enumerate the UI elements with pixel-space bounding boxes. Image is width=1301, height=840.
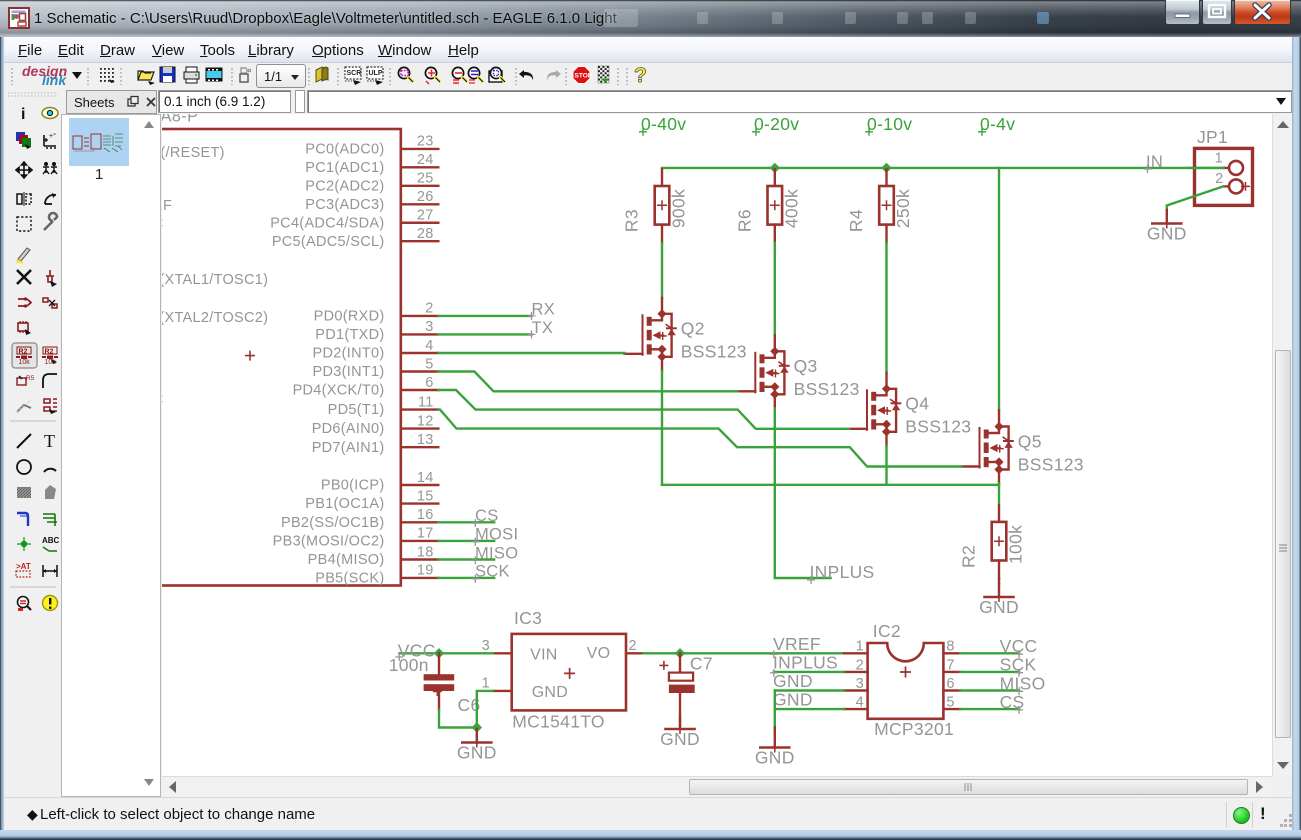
svg-text:19: 19 <box>417 563 434 579</box>
IC1 pin 27 PC4(ADC4/SDA) <box>270 208 438 232</box>
palette <box>4 90 61 797</box>
label CS <box>471 507 498 527</box>
svg-text:2: 2 <box>856 657 864 673</box>
svg-text:PD1(TXD): PD1(TXD) <box>315 327 384 343</box>
wire top bus IN <box>662 167 1224 169</box>
svg-text:12: 12 <box>417 413 434 429</box>
svg-text:Q3: Q3 <box>794 356 818 376</box>
junction at C7 <box>675 648 685 658</box>
JP1 name label <box>1197 127 1228 147</box>
svg-text:R6: R6 <box>734 209 754 232</box>
label IN <box>1144 153 1164 173</box>
IC1 left pin name fragment C2 <box>153 392 164 408</box>
wire source bus horizontal <box>662 484 999 486</box>
svg-text:PD5(T1): PD5(T1) <box>328 402 385 418</box>
svg-text:4: 4 <box>856 695 864 711</box>
svg-text:GND: GND <box>773 690 813 710</box>
wire net RX <box>438 315 531 317</box>
IC1 pin 2 PD0(RXD) <box>314 301 439 325</box>
wire VCC to IC3 VIN <box>399 652 493 654</box>
svg-text:PC4(ADC4/SDA): PC4(ADC4/SDA) <box>270 215 384 231</box>
scrollbars <box>1272 114 1292 776</box>
IC IC3 box <box>512 634 626 711</box>
ground at IC2 <box>755 734 795 768</box>
IC1 pin 19 PB5(SCK) <box>315 563 438 587</box>
ground at JP1 <box>1147 210 1187 244</box>
wire IC3 pin1 to GND corner <box>477 691 493 728</box>
svg-text:1: 1 <box>1215 151 1223 167</box>
svg-text:25: 25 <box>417 171 434 187</box>
label GND pin4 <box>773 690 813 710</box>
svg-text:PD4(XCK/T0): PD4(XCK/T0) <box>293 383 385 399</box>
wire JP1 pin2 to GND <box>1167 186 1224 211</box>
svg-text:SCR: SCR <box>347 70 362 77</box>
wire net CS <box>438 521 494 523</box>
wire pin6 to Q4 gate <box>438 390 849 429</box>
wire net MISO <box>438 558 494 560</box>
IC1 left pin name fragment D <box>151 180 162 196</box>
IC3 pin 1 GND <box>482 676 569 701</box>
IC IC1 ATMEGA8-P box <box>140 129 401 586</box>
IC1 left pin name XTAL2 <box>151 310 268 326</box>
IC2 pin 1 <box>844 639 868 655</box>
label 0-4v <box>978 114 1015 136</box>
transistor Q5 BSS123 <box>962 411 1084 484</box>
IC2 pin 7 <box>943 657 960 673</box>
label 0-20v <box>752 114 799 136</box>
wire net MISO at IC2 <box>960 689 1019 691</box>
IC3 origin cross <box>564 668 575 679</box>
svg-text:Q2: Q2 <box>681 319 705 339</box>
wire pin5 to Q3 gate <box>438 372 737 392</box>
label CS at IC2 <box>1000 692 1025 714</box>
IC1 pin 16 PB2(SS/OC1B) <box>281 507 438 531</box>
svg-text:1: 1 <box>482 676 490 692</box>
svg-text:900k: 900k <box>669 189 689 228</box>
svg-text:Q4: Q4 <box>905 394 929 414</box>
IC1 left pin name fragment (/RESET) <box>152 145 225 161</box>
svg-text:BSS123: BSS123 <box>681 342 747 362</box>
svg-text:3: 3 <box>425 319 433 335</box>
wire pin4 to Q2 gate <box>438 352 624 354</box>
svg-text:MISO: MISO <box>475 544 518 562</box>
svg-text:PD7(AIN1): PD7(AIN1) <box>312 440 385 456</box>
svg-text:PB3(MOSI/OC2): PB3(MOSI/OC2) <box>273 534 385 550</box>
svg-text:0-20v: 0-20v <box>754 114 799 134</box>
label INPLUS at IC2 <box>770 652 838 677</box>
svg-text:R3: R3 <box>622 209 642 232</box>
label VREF at IC2 <box>770 634 821 658</box>
wire GND pin3 <box>775 689 844 691</box>
IC1 pin 5 PD3(INT1) <box>313 356 439 380</box>
IC1 pin 25 PC2(ADC2) <box>305 171 438 195</box>
svg-text:R5: R5 <box>26 375 35 382</box>
svg-text:18: 18 <box>417 544 434 560</box>
label 0-10v <box>865 114 912 136</box>
svg-text:R2: R2 <box>19 349 28 356</box>
wire GND pin4 <box>775 708 844 710</box>
svg-text:ABC: ABC <box>42 536 60 545</box>
label INPLUS <box>807 562 875 584</box>
svg-text:5: 5 <box>425 356 433 372</box>
IC1 pin 14 PB0(ICP) <box>321 470 438 494</box>
svg-text:R2: R2 <box>45 349 54 356</box>
wire pin11 to Q5 gate <box>438 410 961 467</box>
label SCK at IC2 <box>1000 655 1037 677</box>
svg-text:INPLUS: INPLUS <box>773 652 838 672</box>
svg-text:17: 17 <box>417 526 434 542</box>
svg-text:R4: R4 <box>846 209 866 232</box>
svg-text:PD3(INT1): PD3(INT1) <box>313 364 385 380</box>
svg-text:C7: C7 <box>690 653 713 673</box>
svg-text:GND: GND <box>1147 224 1187 244</box>
junction at R4 <box>881 163 891 173</box>
IC IC2 MCP3201 box <box>868 643 944 719</box>
IC1 pin 12 PD6(AIN0) <box>312 413 439 437</box>
wire net SCK at IC2 <box>960 671 1019 673</box>
transistor Q4 BSS123 <box>849 373 971 446</box>
IC1 left pin name fragment D2 <box>151 365 162 381</box>
svg-text:MOSI: MOSI <box>475 526 518 544</box>
IC1 pin 6 PD4(XCK/T0) <box>293 375 439 399</box>
wire Q2 source down <box>661 371 663 485</box>
svg-text:SCK: SCK <box>475 563 510 581</box>
IC1 left pin name fragment C <box>153 216 164 232</box>
svg-text:400k: 400k <box>781 189 801 228</box>
svg-text:100k: 100k <box>1006 525 1026 564</box>
resistor R2 100k <box>959 505 1026 579</box>
svg-text:>AT: >AT <box>16 562 31 571</box>
svg-text:PB2(SS/OC1B): PB2(SS/OC1B) <box>281 515 385 531</box>
svg-text:11: 11 <box>418 394 434 410</box>
svg-text:1: 1 <box>856 639 864 655</box>
svg-text:6: 6 <box>946 676 954 692</box>
IC1 pin 13 PD7(AIN1) <box>312 432 439 456</box>
svg-text:GND: GND <box>457 743 497 763</box>
label 0-40v <box>639 114 686 136</box>
IC2 name label <box>873 621 901 641</box>
wire R6 to Q3 drain <box>774 243 776 335</box>
label TX <box>528 319 554 338</box>
svg-text:A8-P: A8-P <box>162 114 198 126</box>
capacitor C6 100n <box>424 653 455 709</box>
connector JP1 box <box>1195 148 1253 205</box>
IC2 pin 5 <box>943 695 960 711</box>
svg-text:2: 2 <box>425 301 433 317</box>
label SCK <box>471 563 510 583</box>
wire C6 to GND corner <box>439 710 477 728</box>
label MOSI <box>471 526 518 546</box>
IC2 pin 6 <box>943 676 960 692</box>
IC1 pin 3 PD1(TXD) <box>315 319 438 343</box>
svg-text:MISO: MISO <box>1000 673 1046 693</box>
wire 0-4v column to Q5 drain <box>998 168 1000 411</box>
wire GND vertical <box>774 691 776 735</box>
wire net CS at IC2 <box>960 708 1019 710</box>
svg-text:GND: GND <box>979 597 1019 617</box>
label VCC at IC2 <box>1000 636 1038 658</box>
IC1 pin 23 PC0(ADC0) <box>305 134 438 158</box>
svg-text:15: 15 <box>417 488 434 504</box>
svg-text:13: 13 <box>417 432 434 448</box>
menu bar <box>4 37 1297 63</box>
C7 name label <box>690 653 713 673</box>
svg-text:IC3: IC3 <box>514 608 542 628</box>
IC2 pin 3 <box>844 676 868 692</box>
label 100n (C6 value) <box>389 655 429 675</box>
ground below C7 <box>660 716 700 750</box>
svg-text:0-10v: 0-10v <box>867 114 912 134</box>
svg-text:MC1541TO: MC1541TO <box>512 712 605 732</box>
svg-text:PC3(ADC3): PC3(ADC3) <box>305 197 384 213</box>
svg-text:0-40v: 0-40v <box>641 114 686 134</box>
svg-text:GND: GND <box>773 671 813 691</box>
svg-text:T: T <box>44 431 55 451</box>
svg-text:24: 24 <box>417 152 434 168</box>
svg-text:IC2: IC2 <box>873 621 901 641</box>
IC3 pin 2 VO <box>587 638 644 662</box>
svg-text:BSS123: BSS123 <box>905 417 971 437</box>
ground below C6 <box>457 729 497 763</box>
svg-text:16: 16 <box>417 507 434 523</box>
capacitor C7 <box>659 653 694 726</box>
svg-text:ULP: ULP <box>369 70 383 77</box>
IC1 pin 11 PD5(T1) <box>328 394 439 418</box>
toolbar <box>4 63 1297 90</box>
title bar <box>0 0 1301 37</box>
IC2 value MCP3201 <box>874 719 954 739</box>
wire Q5 source to R2 <box>998 484 1000 504</box>
svg-text:?: ? <box>634 64 647 87</box>
IC1 left pin name XTAL1 <box>151 272 268 288</box>
resistor R6 400k <box>734 169 801 243</box>
svg-text:PB5(SCK): PB5(SCK) <box>315 571 384 587</box>
svg-text:PD2(INT0): PD2(INT0) <box>313 346 385 362</box>
wire Q3 source to INPLUS <box>775 408 831 578</box>
sheets panel <box>61 114 161 797</box>
svg-text:Q5: Q5 <box>1018 431 1042 451</box>
svg-text:INPLUS: INPLUS <box>810 562 875 582</box>
svg-text:250k: 250k <box>893 189 913 228</box>
svg-text:C: C <box>162 216 164 232</box>
svg-text:26: 26 <box>417 189 434 205</box>
junction at R6 <box>770 163 780 173</box>
svg-text:PB0(ICP): PB0(ICP) <box>321 478 385 494</box>
svg-text:i: i <box>21 106 25 123</box>
svg-text:PD6(AIN0): PD6(AIN0) <box>312 421 385 437</box>
svg-text:R2: R2 <box>959 545 979 568</box>
IC1 value label A8-P (clipped) <box>161 108 199 126</box>
svg-text:CS: CS <box>475 507 499 525</box>
IC2 origin cross <box>900 667 911 678</box>
svg-text:0-4v: 0-4v <box>980 114 1015 134</box>
label RX <box>528 301 556 320</box>
IC2 pin 2 <box>844 657 868 673</box>
wire net INPLUS to IC2 <box>774 671 844 673</box>
svg-text:8: 8 <box>946 639 954 655</box>
svg-text:SCK: SCK <box>1000 655 1037 675</box>
wire net TX <box>438 333 531 335</box>
svg-text:14: 14 <box>417 470 434 486</box>
resistor R4 250k <box>846 169 913 243</box>
svg-text:VO: VO <box>587 645 611 662</box>
svg-text:7(XTAL2/TOSC2): 7(XTAL2/TOSC2) <box>162 310 268 326</box>
svg-text:6(/RESET): 6(/RESET) <box>162 145 225 161</box>
svg-text:23: 23 <box>417 134 434 150</box>
wire Q4 source down <box>885 446 887 485</box>
svg-text:10k: 10k <box>19 359 31 366</box>
IC1 origin cross <box>245 351 255 361</box>
label MISO at IC2 <box>1000 673 1046 695</box>
IC1 pin 15 PB1(OC1A) <box>305 488 438 512</box>
svg-text:CS: CS <box>1000 692 1025 712</box>
svg-text:VIN: VIN <box>530 647 558 664</box>
IC1 left pin name fragment EF <box>153 198 172 214</box>
IC1 pin 24 PC1(ADC1) <box>305 152 438 176</box>
wire R3 to Q2 drain <box>661 243 663 298</box>
second row <box>4 90 1297 114</box>
svg-text:28: 28 <box>417 226 434 242</box>
IC1 pin 18 PB4(MISO) <box>308 544 439 568</box>
svg-text:3: 3 <box>482 638 490 654</box>
JP1 pin 1 <box>1215 151 1243 175</box>
svg-text:EF: EF <box>162 198 172 214</box>
svg-text:PC2(ADC2): PC2(ADC2) <box>305 178 384 194</box>
wire IC3 VO to IC2 VREF <box>643 652 844 654</box>
svg-text:IN: IN <box>1146 153 1163 171</box>
svg-text:6: 6 <box>425 375 433 391</box>
junction at GND corner <box>472 722 482 732</box>
svg-text:C: C <box>162 392 164 408</box>
IC2 pin 8 <box>943 639 960 655</box>
svg-text:GND: GND <box>532 684 568 701</box>
svg-text:PB4(MISO): PB4(MISO) <box>308 552 385 568</box>
wire net SCK <box>438 577 494 579</box>
svg-text:6(XTAL1/TOSC1): 6(XTAL1/TOSC1) <box>162 272 268 288</box>
wire R2 to GND <box>998 579 1000 584</box>
label VCC <box>395 640 435 661</box>
svg-text:STOP: STOP <box>575 73 593 80</box>
IC1 pin 17 PB3(MOSI/OC2) <box>273 526 439 550</box>
svg-text:VREF: VREF <box>773 634 821 654</box>
transistor Q3 BSS123 <box>737 335 859 408</box>
IC2 pin 4 <box>844 695 868 711</box>
label MISO <box>471 544 518 564</box>
svg-text:BSS123: BSS123 <box>794 379 860 399</box>
wire IN into JP1 overlay <box>1190 167 1224 169</box>
IC1 pin 28 PC5(ADC5/SCL) <box>272 226 438 250</box>
C6 name label <box>458 695 481 715</box>
svg-text:BSS123: BSS123 <box>1018 454 1084 474</box>
wire net VCC at IC2 <box>960 652 1019 654</box>
IC1 pin 4 PD2(INT0) <box>313 338 439 362</box>
svg-text:PD0(RXD): PD0(RXD) <box>314 309 385 325</box>
svg-text:5: 5 <box>946 695 954 711</box>
IC3 pin 3 VIN <box>482 638 558 664</box>
resistor R3 900k <box>622 169 689 243</box>
status <box>4 797 1297 830</box>
svg-text:PC0(ADC0): PC0(ADC0) <box>305 142 384 158</box>
svg-text:2: 2 <box>1215 171 1223 187</box>
wire net MOSI <box>438 540 494 542</box>
svg-text:7: 7 <box>946 657 954 673</box>
svg-text:PB1(OC1A): PB1(OC1A) <box>305 496 384 512</box>
svg-text:100n: 100n <box>389 655 429 675</box>
IC3 value MC1541TO <box>512 712 605 732</box>
svg-text:GND: GND <box>755 748 795 768</box>
transistor Q2 BSS123 <box>625 298 747 371</box>
wire R4 to Q4 drain <box>885 243 887 373</box>
junction at C6 <box>434 648 444 658</box>
svg-text:2: 2 <box>629 638 637 654</box>
svg-text:JP1: JP1 <box>1197 127 1228 147</box>
IC3 name label <box>514 608 542 628</box>
IC1 pin 26 PC3(ADC3) <box>305 189 438 213</box>
label GND pin3 <box>773 671 813 691</box>
svg-text:PC5(ADC5/SCL): PC5(ADC5/SCL) <box>272 234 385 250</box>
JP1 pin 2 <box>1215 171 1250 193</box>
svg-text:3: 3 <box>856 676 864 692</box>
svg-text:4: 4 <box>425 338 433 354</box>
canvas <box>162 114 1272 776</box>
svg-text:MCP3201: MCP3201 <box>874 719 954 739</box>
ground below R2 <box>979 584 1019 618</box>
svg-text:PC1(ADC1): PC1(ADC1) <box>305 160 384 176</box>
svg-text:link: link <box>42 72 67 88</box>
svg-text:GND: GND <box>660 729 700 749</box>
svg-text:+°: +° <box>49 132 56 140</box>
svg-text:27: 27 <box>417 208 434 224</box>
